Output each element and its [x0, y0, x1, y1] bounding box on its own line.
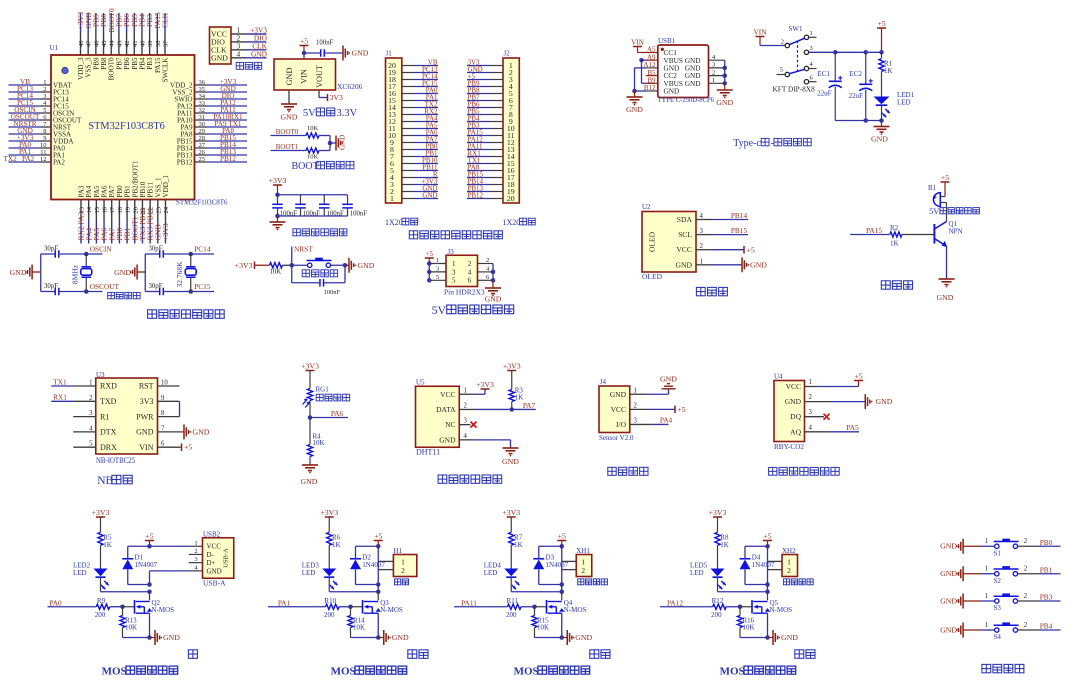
- J2 pin 10: [467, 121, 515, 133]
- capacitor EC1 22uF: [817, 52, 842, 120]
- svg-text:+5: +5: [558, 531, 566, 540]
- svg-text:GND: GND: [940, 625, 957, 634]
- svg-text:+3V3: +3V3: [235, 261, 253, 270]
- wire GND up: [630, 390, 669, 395]
- SW1 blade 2-1: [789, 38, 804, 45]
- svg-text:TXD: TXD: [100, 397, 117, 406]
- capacitor 100nF: [295, 195, 320, 218]
- wire LED to node: [511, 577, 564, 594]
- title temp-humidity sensor: [438, 475, 502, 483]
- LED LED5: [690, 545, 726, 589]
- svg-text:24: 24: [163, 206, 170, 213]
- svg-text:N-MOS: N-MOS: [152, 606, 175, 614]
- U1 pin 27 PB14: [177, 141, 247, 153]
- wire diode bottom: [539, 569, 564, 586]
- connector comment: [394, 579, 408, 585]
- svg-text:BOOT0: BOOT0: [276, 128, 299, 136]
- svg-text:30pF: 30pF: [44, 283, 58, 290]
- svg-text:STM32F103C8T6: STM32F103C8T6: [88, 120, 165, 132]
- svg-text:PB12: PB12: [468, 191, 484, 199]
- J2 pin 7: [467, 100, 513, 112]
- svg-text:OLED: OLED: [648, 231, 657, 252]
- svg-text:3V3: 3V3: [330, 93, 344, 102]
- U4 pin 2 GND: [785, 394, 813, 406]
- net PA0 wire: [48, 598, 97, 607]
- wire: [255, 264, 270, 266]
- title 5V external backup power: [432, 303, 514, 317]
- U1 pin 35 VSS_2: [172, 85, 247, 97]
- svg-text:GND: GND: [940, 596, 957, 605]
- USB1 pin 4 GND: [685, 54, 725, 65]
- SW1 pin numbers: [780, 30, 814, 82]
- svg-text:KFT DIP-8X8: KFT DIP-8X8: [773, 85, 816, 94]
- svg-text:200: 200: [711, 611, 722, 619]
- svg-text:MOS: MOS: [102, 666, 127, 677]
- net NRST: [292, 245, 313, 266]
- connector XH2: [782, 547, 798, 577]
- svg-text:1X20: 1X20: [503, 218, 521, 227]
- download port pin 2 DIO: [211, 33, 268, 46]
- wire top rail: [278, 194, 348, 196]
- svg-text:U4: U4: [774, 373, 783, 381]
- capacitor 30pF top: [145, 246, 163, 258]
- U3 pin 10 RST: [139, 380, 180, 391]
- svg-text:USB1: USB1: [658, 37, 676, 45]
- power +5: [763, 531, 772, 546]
- U1 pin 20 PB2/BOOT1: [130, 160, 139, 244]
- wire VBUS A9-B9: [639, 58, 646, 83]
- svg-text:GND: GND: [352, 49, 369, 58]
- svg-text:1: 1: [810, 30, 813, 37]
- svg-text:PC14: PC14: [194, 245, 211, 254]
- wire to gate: [110, 605, 135, 610]
- svg-text:J4: J4: [600, 378, 607, 386]
- svg-text:2: 2: [781, 39, 784, 46]
- power +5: [744, 245, 755, 254]
- svg-text:10K: 10K: [125, 624, 137, 632]
- J2 pin 8: [467, 107, 513, 119]
- U1 pin 4 PC15: [9, 99, 70, 111]
- power +3V3: [476, 380, 494, 389]
- svg-text:2: 2: [581, 566, 585, 575]
- svg-text:200: 200: [324, 611, 335, 619]
- U1 pin 45 PB8: [99, 13, 108, 70]
- svg-text:16: 16: [102, 206, 109, 213]
- connector J4 Sensor V2.0: [599, 378, 634, 442]
- wire to cap: [304, 52, 321, 54]
- svg-text:+3V3: +3V3: [476, 380, 494, 389]
- J2 pin 15: [467, 156, 515, 168]
- svg-text:USB-A: USB-A: [223, 548, 230, 568]
- resistor R11 200: [506, 597, 521, 619]
- svg-text:3V3: 3V3: [140, 397, 154, 406]
- title load name: [795, 650, 815, 659]
- ground: [562, 630, 593, 645]
- J1 pin 15: [388, 93, 438, 105]
- svg-text:27: 27: [199, 142, 206, 149]
- svg-text:10K: 10K: [307, 125, 319, 132]
- svg-text:GND: GND: [439, 435, 456, 444]
- svg-text:GND: GND: [785, 397, 802, 406]
- U1 pin 32 PA11: [177, 106, 247, 118]
- wire gnd pin: [288, 90, 290, 104]
- svg-text:NPN: NPN: [949, 228, 963, 236]
- U3 pin 5 DRX: [73, 441, 117, 452]
- U1 pin 48 VDD_3: [76, 12, 85, 80]
- U3 pin 6 VIN: [139, 441, 179, 452]
- svg-text:GND: GND: [610, 390, 627, 399]
- U5 pin 4 GND: [439, 433, 467, 445]
- svg-text:VDD_1: VDD_1: [162, 175, 170, 198]
- push button S4: [994, 622, 1019, 641]
- U1 pin 1 VBAT: [9, 78, 73, 90]
- U3 pin 9 3V3: [140, 395, 180, 406]
- wire pin1: [562, 560, 577, 562]
- ground: [150, 630, 181, 645]
- svg-text:1: 1: [985, 593, 988, 600]
- svg-text:+5: +5: [747, 245, 755, 254]
- title MCU minimal system: [148, 310, 225, 319]
- svg-text:10K: 10K: [743, 624, 755, 632]
- svg-text:1: 1: [985, 566, 988, 573]
- wire diode bottom: [356, 569, 381, 586]
- U1 pin 30 PA9: [181, 120, 247, 132]
- svg-text:GND: GND: [10, 268, 27, 277]
- svg-text:2: 2: [401, 566, 405, 575]
- LED LED4: [484, 545, 520, 589]
- svg-text:23: 23: [155, 207, 162, 214]
- svg-text:AQ: AQ: [790, 427, 801, 436]
- svg-text:BOOT: BOOT: [292, 161, 319, 172]
- svg-text:42: 42: [124, 41, 131, 48]
- svg-text:19: 19: [125, 207, 132, 214]
- svg-text:1: 1: [985, 538, 988, 545]
- svg-text:4: 4: [237, 49, 241, 58]
- key S3 ground: [940, 594, 980, 609]
- svg-text:DTX: DTX: [100, 428, 117, 437]
- svg-text:1K: 1K: [884, 67, 893, 75]
- SW1 contact: [785, 43, 789, 47]
- key S4 wire left: [981, 622, 995, 630]
- power +3V3: [709, 508, 727, 532]
- capacitor 30pF top: [41, 246, 59, 258]
- wire 3V3-PWR bracket: [179, 401, 181, 416]
- svg-text:I/O: I/O: [616, 420, 627, 429]
- U5 pin 2 DATA: [436, 402, 467, 414]
- download header connector: [210, 27, 232, 64]
- svg-text:2: 2: [43, 86, 46, 93]
- connector USB2 USB-A: [203, 531, 234, 588]
- ground: [871, 121, 889, 144]
- U1 pin 29 PA8: [181, 127, 247, 139]
- svg-text:1: 1: [390, 194, 394, 203]
- svg-text:XH1: XH1: [576, 547, 590, 555]
- capacitor 100nF: [342, 195, 367, 218]
- svg-text:R1: R1: [100, 412, 109, 421]
- svg-text:PA15: PA15: [866, 226, 882, 235]
- wire stub pin1: [809, 36, 817, 38]
- net PC14: [194, 245, 211, 254]
- U1 pin 7 NRST: [9, 120, 72, 132]
- svg-text:PA11: PA11: [461, 598, 477, 607]
- power +3V3: [235, 261, 255, 270]
- svg-text:GND: GND: [301, 477, 318, 486]
- ground: [626, 91, 643, 114]
- svg-text:R12: R12: [712, 597, 724, 605]
- USB2 pin 1 VCC: [189, 540, 221, 551]
- svg-text:+5: +5: [877, 19, 885, 28]
- transistor Q5 N-MOS: [752, 599, 792, 614]
- U1 pin 47 VSS_3: [84, 12, 93, 78]
- wire: [319, 150, 330, 152]
- ground: [301, 465, 318, 486]
- net OSCOUT: [90, 282, 120, 291]
- title CO2 sensor: [769, 467, 840, 475]
- power +3V3: [269, 176, 287, 195]
- USB2 pin 4 GND: [189, 564, 222, 575]
- SW1 contact: [804, 35, 808, 39]
- svg-text:VCC: VCC: [611, 405, 626, 414]
- svg-text:GND: GND: [358, 261, 375, 270]
- wire source to gnd: [123, 613, 152, 640]
- wire I/O net PA4: [630, 416, 673, 425]
- svg-text:+3V3: +3V3: [320, 508, 338, 517]
- svg-text:SWCLK: SWCLK: [161, 57, 169, 83]
- U3 pin 8 PWR: [136, 410, 179, 421]
- svg-text:47: 47: [86, 40, 93, 47]
- sensor U5 DHT11: [416, 379, 460, 457]
- svg-text:+5: +5: [184, 443, 192, 452]
- U1 pin 26 PB13: [177, 148, 247, 160]
- J2 pin 19: [467, 184, 515, 196]
- svg-text:5: 5: [780, 67, 783, 74]
- wire crystal loop left: [144, 254, 146, 292]
- resistor 10K: [270, 263, 283, 276]
- wire LED to node: [101, 577, 152, 594]
- power +5: [425, 251, 434, 264]
- transistor Q4 N-MOS: [547, 599, 587, 614]
- resistor R7 1K: [509, 532, 523, 549]
- net OSCIN: [90, 245, 113, 254]
- wire: [292, 264, 308, 266]
- svg-text:U2: U2: [642, 203, 651, 211]
- ground: [937, 279, 955, 302]
- power VIN: [631, 38, 646, 52]
- svg-text:RBY-CO2: RBY-CO2: [774, 442, 804, 451]
- U1 pin 2 PC13: [9, 85, 70, 97]
- svg-text:1K: 1K: [103, 541, 112, 549]
- svg-text:34: 34: [199, 93, 206, 100]
- svg-text:EC1: EC1: [818, 70, 831, 78]
- svg-text:+5: +5: [677, 405, 685, 414]
- wire: [59, 289, 103, 294]
- J1 pin 1: [390, 191, 438, 203]
- svg-text:1: 1: [436, 257, 439, 264]
- svg-text:+3V3: +3V3: [502, 508, 520, 517]
- USB1 pin A12 GND: [643, 61, 679, 72]
- svg-text:30: 30: [199, 121, 206, 128]
- diode D1 1N4007: [122, 553, 157, 569]
- connector comment: [783, 579, 813, 585]
- svg-text:39: 39: [147, 41, 154, 48]
- wire +5 rail to USB2 VCC: [150, 545, 189, 547]
- U1 pin 36 VDD_2: [170, 78, 247, 90]
- svg-text:GND: GND: [937, 293, 954, 302]
- svg-text:10K: 10K: [353, 624, 365, 632]
- U2 pin 3 SCL: [678, 226, 748, 239]
- J1 pin 13: [388, 107, 438, 119]
- svg-text:GND: GND: [339, 135, 347, 150]
- svg-text:GND: GND: [575, 633, 592, 642]
- title load name: [590, 650, 610, 659]
- power +5: [374, 531, 383, 546]
- U1 pin 5 OSCIN: [9, 106, 75, 118]
- resistor R13 10K pulldown: [120, 607, 137, 632]
- wire stub pin5: [777, 74, 786, 76]
- svg-text:43: 43: [116, 41, 123, 48]
- svg-text:VIN: VIN: [631, 38, 645, 46]
- wire GND: [805, 401, 866, 403]
- power +3V3: [92, 508, 110, 532]
- title MOS control output: [514, 666, 590, 678]
- net BOOT0: [271, 128, 307, 136]
- svg-text:+5: +5: [854, 371, 862, 380]
- ground: [502, 448, 519, 466]
- svg-text:VCC: VCC: [676, 245, 692, 254]
- svg-text:2: 2: [1024, 593, 1028, 600]
- svg-text:SDA: SDA: [677, 215, 693, 224]
- svg-text:GND: GND: [676, 260, 693, 269]
- U2 pin 4 SDA: [677, 211, 748, 224]
- J4 pin 1 GND: [610, 387, 637, 399]
- svg-text:5V: 5V: [303, 108, 316, 119]
- U1 pin 37 SWCLK: [161, 12, 170, 82]
- svg-text:DQ: DQ: [790, 412, 801, 421]
- svg-text:Pin HDR2X3: Pin HDR2X3: [444, 288, 485, 297]
- SW1 contact: [804, 50, 808, 54]
- USB1 pin A9 VBUS: [646, 53, 683, 64]
- svg-text:SCL: SCL: [678, 230, 692, 239]
- wire drain: [149, 592, 151, 601]
- wire: [163, 289, 214, 294]
- J1 pin 7: [390, 149, 438, 161]
- USB1 pin A5 CC1: [646, 46, 677, 57]
- svg-text:RG1: RG1: [316, 386, 330, 394]
- sensor U4 RBY-CO2: [774, 373, 805, 452]
- USB1 pin B12 GND: [644, 84, 679, 95]
- svg-text:+5: +5: [941, 173, 949, 182]
- U1 pin 19 PB1: [123, 185, 132, 244]
- svg-text:10K: 10K: [313, 439, 325, 447]
- J2 label 1X20: [503, 218, 536, 227]
- svg-text:R11: R11: [507, 597, 519, 605]
- svg-text:+3V3: +3V3: [92, 508, 110, 517]
- resistor R2 1K: [890, 224, 902, 248]
- transistor Q1 NPN: [934, 203, 962, 248]
- U3 pin 1 RXD: [51, 377, 117, 390]
- wire to gate: [339, 605, 362, 610]
- svg-text:5V: 5V: [432, 303, 447, 317]
- push button S1: [994, 539, 1019, 558]
- svg-text:NB: NB: [97, 475, 113, 487]
- wire bottom loop: [292, 265, 345, 283]
- wire to base: [902, 234, 934, 236]
- U1 pin 18 PB0: [115, 185, 124, 244]
- title independent keys: [982, 664, 1024, 672]
- svg-text:GND: GND: [660, 375, 677, 384]
- resistor R12 200: [711, 597, 726, 619]
- svg-text:DHT11: DHT11: [416, 448, 440, 457]
- svg-text:35: 35: [199, 86, 206, 93]
- svg-text:GND: GND: [207, 567, 222, 575]
- J3 pins 5/6: [429, 274, 493, 285]
- U1 pin 31 PA10: [177, 113, 247, 125]
- svg-text:PA6: PA6: [331, 409, 344, 418]
- resistor R14 10K pulldown: [348, 607, 365, 632]
- transistor Q3 N-MOS: [363, 599, 403, 614]
- wire: [319, 136, 330, 151]
- net PC15: [194, 282, 211, 291]
- wire GND: [696, 264, 742, 266]
- svg-text:PB12: PB12: [220, 155, 236, 163]
- U1 pin 15 PA5: [92, 185, 101, 243]
- svg-text:12: 12: [40, 156, 47, 163]
- U3 pin 2 TXD: [51, 393, 116, 406]
- svg-text:11: 11: [40, 149, 46, 156]
- svg-text:NRST: NRST: [294, 245, 313, 254]
- svg-text:GND: GND: [876, 397, 893, 406]
- USB1 pin B5 CC2: [646, 69, 677, 80]
- capacitor 100nF: [272, 195, 297, 218]
- wire diode bottom: [745, 569, 770, 586]
- svg-text:VIN: VIN: [754, 28, 768, 36]
- resistor 10K: [306, 125, 319, 138]
- U1 pin 6 OSCOUT: [9, 113, 83, 125]
- svg-text:MOS: MOS: [514, 666, 539, 677]
- wire source to gnd: [351, 613, 381, 640]
- svg-text:30pF: 30pF: [149, 283, 163, 290]
- svg-text:10: 10: [40, 142, 47, 149]
- svg-text:NC: NC: [445, 420, 455, 429]
- node: [275, 214, 280, 219]
- svg-text:26: 26: [199, 149, 206, 156]
- key S2 wire left: [981, 566, 995, 574]
- J1 pin 18: [388, 72, 438, 84]
- svg-text:S4: S4: [994, 633, 1002, 641]
- wire VCC: [459, 389, 485, 394]
- svg-text:GND: GND: [502, 457, 519, 466]
- net PA11 wire: [454, 598, 508, 607]
- U5 pin 1 VCC: [440, 387, 467, 399]
- title MCU pins header: [409, 231, 502, 239]
- wire pin1: [768, 560, 783, 562]
- comment photoresistor: [316, 394, 349, 401]
- svg-text:1K: 1K: [514, 541, 523, 549]
- svg-text:VCC: VCC: [440, 390, 455, 399]
- svg-text:1K: 1K: [720, 541, 729, 549]
- svg-text:37: 37: [162, 40, 169, 47]
- resistor 10K: [306, 148, 319, 161]
- svg-text:8MHz: 8MHz: [70, 264, 79, 284]
- svg-text:PA2: PA2: [53, 158, 65, 166]
- svg-text:+5: +5: [763, 531, 771, 540]
- svg-text:VIN: VIN: [139, 443, 153, 452]
- svg-text:3: 3: [43, 93, 46, 100]
- net PA12 wire: [660, 598, 713, 607]
- svg-text:PB15: PB15: [731, 226, 748, 235]
- J1 pin 2: [390, 184, 438, 196]
- svg-text:U5: U5: [416, 379, 425, 387]
